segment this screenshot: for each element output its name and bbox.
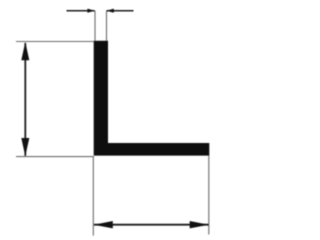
top thickness dimension line, left segment <box>67 10 95 12</box>
left height dimension line <box>24 43 26 156</box>
bottom width dimension line <box>94 224 209 226</box>
left height dimension arrowhead pointing down <box>21 138 29 156</box>
top thickness dimension line, right segment <box>107 10 134 12</box>
L-profile (angle bar cross-section) <box>94 41 210 156</box>
top thickness dimension arrowhead pointing right <box>87 9 94 13</box>
top thickness dimension arrowhead pointing left <box>106 9 113 13</box>
bottom width dimension arrowhead pointing right <box>190 221 209 228</box>
extension line left of top thickness dimension <box>94 11 96 41</box>
extension line left of bottom width dimension <box>92 156 94 235</box>
extension line right of top thickness dimension <box>106 11 108 41</box>
extension line top of left height dimension <box>16 41 94 43</box>
left height dimension arrowhead pointing up <box>21 42 29 60</box>
bottom width dimension arrowhead pointing left <box>94 221 113 228</box>
extension line right of bottom width dimension <box>208 156 210 235</box>
extension line bottom of left height dimension <box>16 156 94 158</box>
